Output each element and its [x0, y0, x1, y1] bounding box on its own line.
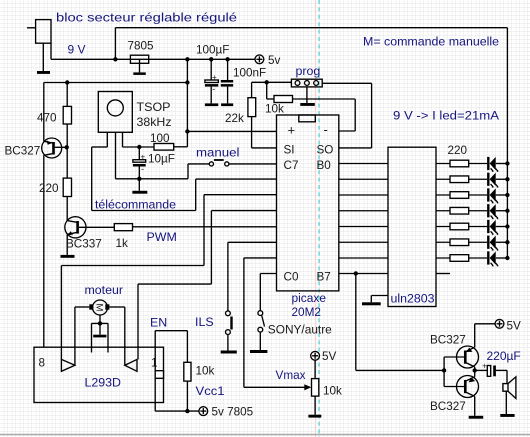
- svg-text:10k: 10k: [265, 102, 284, 115]
- svg-text:moteur: moteur: [85, 283, 124, 297]
- value 1k: [116, 237, 129, 250]
- value 7805: [128, 39, 155, 52]
- resistor R12 220 + LED D6 row6: [436, 236, 510, 251]
- regulator U2 7805: [130, 55, 148, 72]
- svg-text:5V: 5V: [507, 320, 522, 333]
- ground (speaker): [500, 414, 514, 417]
- value 10k (Vmax): [323, 385, 342, 398]
- designator picaxe 20M2: [292, 291, 327, 319]
- value TSOP 38kHz: [137, 101, 172, 129]
- pin label 1: [151, 356, 158, 369]
- label EN: [150, 316, 167, 330]
- switch SW3 SONY/autre: [258, 311, 265, 350]
- value 100µF: [196, 44, 229, 57]
- wire picaxe to uln2803 row7: [339, 257, 388, 259]
- wire EN net: [155, 331, 199, 411]
- wire motor right to buffer B: [109, 307, 124, 365]
- svg-text:5v: 5v: [268, 54, 281, 67]
- designator BC327 (upper): [430, 334, 466, 347]
- svg-text:SO: SO: [317, 143, 334, 156]
- wire uln2803 out stub pin: [436, 273, 450, 275]
- label 9 V -> I led=21mA: [393, 109, 500, 123]
- svg-text:prog: prog: [296, 64, 321, 78]
- wire arrow into Vmax pot: [304, 384, 311, 390]
- ground (plug): [37, 71, 50, 74]
- power symbol 5v: [255, 54, 281, 67]
- value 220: [39, 182, 59, 195]
- svg-text:manuel: manuel: [196, 146, 240, 160]
- IC U6 L293D: [34, 347, 164, 402]
- svg-text:+: +: [212, 73, 217, 82]
- svg-text:Vmax: Vmax: [276, 368, 307, 382]
- resistor R5 22k: [248, 98, 277, 148]
- value 10µF: [148, 152, 175, 165]
- svg-text:uln2803: uln2803: [391, 292, 435, 306]
- label Vmax: [276, 368, 307, 382]
- node EN/10k junction: [185, 409, 189, 413]
- capacitor C3 10µF: [133, 147, 146, 191]
- label Vcc1: [196, 384, 225, 398]
- page boundary line (cyan dashed): [318, 0, 320, 437]
- pin label -: [324, 122, 328, 137]
- wire 5v rail left (y=82.5): [44, 83, 188, 142]
- buffer B (right triangle): [125, 359, 137, 371]
- svg-text:BC327: BC327: [430, 400, 466, 413]
- svg-text:ILS: ILS: [195, 315, 214, 329]
- label manuel: [196, 146, 240, 160]
- wire B7 to uln2803: [339, 273, 388, 275]
- switch SW1 manuel: [188, 159, 277, 166]
- wire picaxe to uln2803 row4: [339, 210, 388, 212]
- buffer A (left triangle): [61, 359, 75, 371]
- node snubber junction: [98, 321, 102, 325]
- wire TSOP vcc: [123, 146, 155, 148]
- page boundary line (pink): [314, 0, 316, 437]
- node TSOP vcc junction: [137, 145, 141, 149]
- svg-text:100: 100: [150, 132, 170, 145]
- svg-text:-: -: [212, 84, 215, 94]
- svg-text:22k: 22k: [225, 112, 244, 125]
- capacitor C2 100nF: [221, 59, 233, 103]
- ground (SONY): [250, 350, 267, 353]
- label 9 V: [68, 43, 87, 57]
- svg-text:20M2: 20M2: [292, 305, 322, 319]
- svg-text:C0: C0: [284, 271, 299, 284]
- wire Q1 collector rail down to L293D pin8: [43, 155, 45, 347]
- svg-text:SONY/autre: SONY/autre: [268, 323, 332, 337]
- wire 9V rail: [51, 43, 255, 59]
- svg-text:220: 220: [448, 144, 468, 157]
- wire picaxe pin6 to ILS: [228, 242, 277, 311]
- transistor Q3 BC327 (upper): [444, 324, 478, 371]
- connector J1 bloc secteur (mains plug): [27, 20, 51, 71]
- svg-text:SI: SI: [284, 143, 295, 156]
- wire picaxe C0 to SONY switch: [260, 274, 276, 311]
- transistor Q4 BC327 (lower): [444, 370, 478, 415]
- wire picaxe pin4 to L293D in2: [138, 211, 277, 360]
- wire prog rail: [252, 82, 292, 97]
- label PWM: [147, 230, 177, 244]
- label télécommande: [95, 198, 176, 212]
- svg-text:+: +: [288, 123, 296, 138]
- power symbol 5V (speaker driver): [475, 319, 521, 332]
- svg-text:+: +: [141, 153, 146, 162]
- ground (C2): [221, 103, 233, 106]
- pin label 8: [39, 356, 46, 369]
- wire PWM to picaxe: [133, 226, 277, 228]
- ground (uln2803): [362, 296, 388, 306]
- svg-text:100nF: 100nF: [233, 67, 266, 80]
- resistor R13 220 + LED D7 row7: [436, 251, 510, 266]
- resistor R8 220 + LED D2 row2: [436, 173, 510, 188]
- connector prog: [291, 79, 322, 103]
- label moteur: [85, 283, 124, 297]
- pin label +: [288, 123, 296, 138]
- label ILS: [195, 315, 214, 329]
- resistor R6 10k (prog): [267, 82, 356, 131]
- svg-text:10k: 10k: [196, 365, 215, 378]
- svg-text:220: 220: [39, 182, 59, 195]
- wire picaxe to uln2803 row2: [339, 178, 388, 180]
- svg-text:9 V -> I led=21mA: 9 V -> I led=21mA: [393, 109, 500, 123]
- svg-text:M: M: [94, 304, 105, 312]
- resistor R4 100: [154, 144, 174, 151]
- svg-text:1: 1: [151, 356, 158, 369]
- value 22k: [225, 112, 244, 125]
- capacitor C5 motor snubber: [92, 315, 109, 353]
- svg-text:télécommande: télécommande: [95, 198, 176, 212]
- speaker LS1: [496, 370, 516, 414]
- node 470 junction: [65, 80, 69, 84]
- pin label SO: [317, 143, 334, 156]
- resistor R14 10k (EN pullup): [184, 362, 191, 381]
- node 5V/+ junction: [185, 129, 189, 133]
- resistor R1 470: [63, 83, 71, 148]
- label M= commande manuelle: [363, 35, 499, 49]
- ground (ILS): [221, 351, 237, 354]
- node 5V output junction: [185, 57, 189, 61]
- svg-text:10µF: 10µF: [148, 152, 175, 165]
- label prog: [296, 64, 321, 78]
- wire picaxe to uln2803 row6: [339, 241, 388, 243]
- resistor R10 220 + LED D4 row4: [436, 204, 510, 219]
- wire picaxe to uln2803 row5: [339, 226, 388, 228]
- svg-text:5V: 5V: [322, 350, 337, 363]
- designator uln2803: [391, 292, 435, 306]
- capacitor C1 100µF: [205, 59, 218, 103]
- svg-text:100µF: 100µF: [196, 44, 229, 57]
- svg-text:10k: 10k: [323, 385, 342, 398]
- svg-text:7805: 7805: [128, 39, 155, 52]
- wire picaxe to uln2803 row3: [339, 194, 388, 196]
- switch SW2 ILS (reed): [226, 311, 232, 351]
- svg-text:BC327: BC327: [5, 145, 41, 158]
- value 220µF: [487, 349, 521, 363]
- node base junction: [442, 368, 446, 372]
- wire SO to prog: [322, 83, 371, 148]
- designator BC327: [5, 145, 41, 158]
- resistor R7 220 + LED D1 row1: [436, 157, 510, 172]
- potentiometer R15 10k (Vmax): [312, 360, 319, 415]
- resistor R2 220: [63, 147, 71, 220]
- svg-text:PWM: PWM: [147, 230, 177, 244]
- ground (Q2 emitter): [61, 255, 75, 258]
- svg-text:BC337: BC337: [66, 237, 102, 250]
- svg-text:BC327: BC327: [430, 334, 466, 347]
- IR receiver U3 TSOP: [98, 92, 132, 179]
- label SONY/autre: [268, 323, 332, 337]
- capacitor C4 220µF: [475, 362, 496, 377]
- value 220 (LED resistors): [448, 144, 468, 157]
- svg-text:1k: 1k: [116, 237, 129, 250]
- ground (Q4): [469, 416, 484, 419]
- power symbol 5V (Vmax): [311, 350, 337, 363]
- pin label B7: [317, 271, 331, 284]
- pin label B0: [317, 159, 332, 172]
- value 100nF: [233, 67, 266, 80]
- node C1 junction: [209, 57, 213, 61]
- transistor Q1 BC327 (PNP): [42, 138, 67, 158]
- value 10k: [196, 365, 215, 378]
- designator BC337: [66, 237, 102, 250]
- node rail/5V junction: [185, 80, 189, 84]
- svg-text:C7: C7: [284, 159, 299, 172]
- node Q1 base junction: [65, 145, 69, 149]
- wire TSOP out to picaxe (télécommande): [92, 147, 277, 211]
- power symbol 5v 7805: [199, 406, 254, 419]
- svg-text:220µF: 220µF: [487, 349, 521, 363]
- node 9V junction: [113, 57, 117, 61]
- ground (Vmax): [308, 415, 321, 418]
- IC U5 uln2803: [388, 147, 436, 306]
- node B7 junction: [354, 271, 358, 275]
- wire 5V to picaxe + pin: [187, 130, 276, 132]
- resistor R9 220 + LED D3 row3: [436, 188, 510, 203]
- node prog/10k junction: [265, 80, 269, 84]
- pin label C7: [284, 159, 299, 172]
- wire B7 branch to transistor bases: [356, 274, 444, 387]
- wire picaxe pin3 to L293D in1: [61, 195, 276, 360]
- IC U4 picaxe 20M2: [277, 115, 339, 291]
- value 10k: [265, 102, 284, 115]
- ground (prog): [300, 103, 315, 106]
- ground (10µF): [132, 191, 147, 194]
- ground (7805): [133, 72, 146, 75]
- node output junction: [473, 368, 477, 372]
- motor M1: [89, 300, 109, 315]
- svg-text:-: -: [141, 164, 144, 174]
- resistor R11 220 + LED D5 row5: [436, 220, 510, 235]
- svg-text:38kHz: 38kHz: [137, 116, 172, 129]
- pin pad EN (L293D): [155, 371, 163, 379]
- svg-text:M= commande manuelle: M= commande manuelle: [363, 35, 499, 49]
- node TSOP gnd junction: [137, 177, 141, 181]
- value 100: [150, 132, 170, 145]
- svg-text:470: 470: [37, 112, 57, 125]
- label bloc secteur réglable régulé: [56, 11, 237, 25]
- svg-text:picaxe: picaxe: [292, 291, 327, 305]
- node C2 junction: [225, 57, 229, 61]
- svg-text:TSOP: TSOP: [137, 101, 171, 114]
- designator BC327 (lower): [430, 400, 466, 413]
- svg-text:B0: B0: [317, 159, 332, 172]
- svg-text:9 V: 9 V: [68, 43, 87, 57]
- designator L293D: [85, 376, 122, 390]
- value 470: [37, 112, 57, 125]
- svg-text:EN: EN: [150, 316, 167, 330]
- wire 5V vertical feed: [174, 59, 188, 147]
- svg-text:B7: B7: [317, 271, 331, 284]
- pin label C0: [284, 271, 299, 284]
- transistor Q2 BC337 (NPN): [65, 217, 115, 255]
- svg-text:-: -: [324, 122, 328, 137]
- wire B0 to uln2803: [339, 163, 388, 165]
- pin label SI: [284, 143, 295, 156]
- wire ground line to manuel switch: [116, 164, 189, 179]
- ground (C1): [205, 103, 218, 106]
- svg-text:bloc secteur réglable régulé: bloc secteur réglable régulé: [56, 11, 237, 25]
- wire motor left to buffer A: [75, 307, 89, 365]
- resistor R3 1k: [114, 224, 132, 231]
- svg-text:Vcc1: Vcc1: [196, 384, 225, 398]
- svg-text:5v 7805: 5v 7805: [212, 406, 254, 419]
- svg-text:8: 8: [39, 356, 46, 369]
- window bottom border: [0, 434, 530, 436]
- svg-text:L293D: L293D: [85, 376, 122, 390]
- wire 9V top rail to LEDs: [115, 28, 507, 258]
- wire picaxe pin7 to Vmax: [244, 258, 306, 387]
